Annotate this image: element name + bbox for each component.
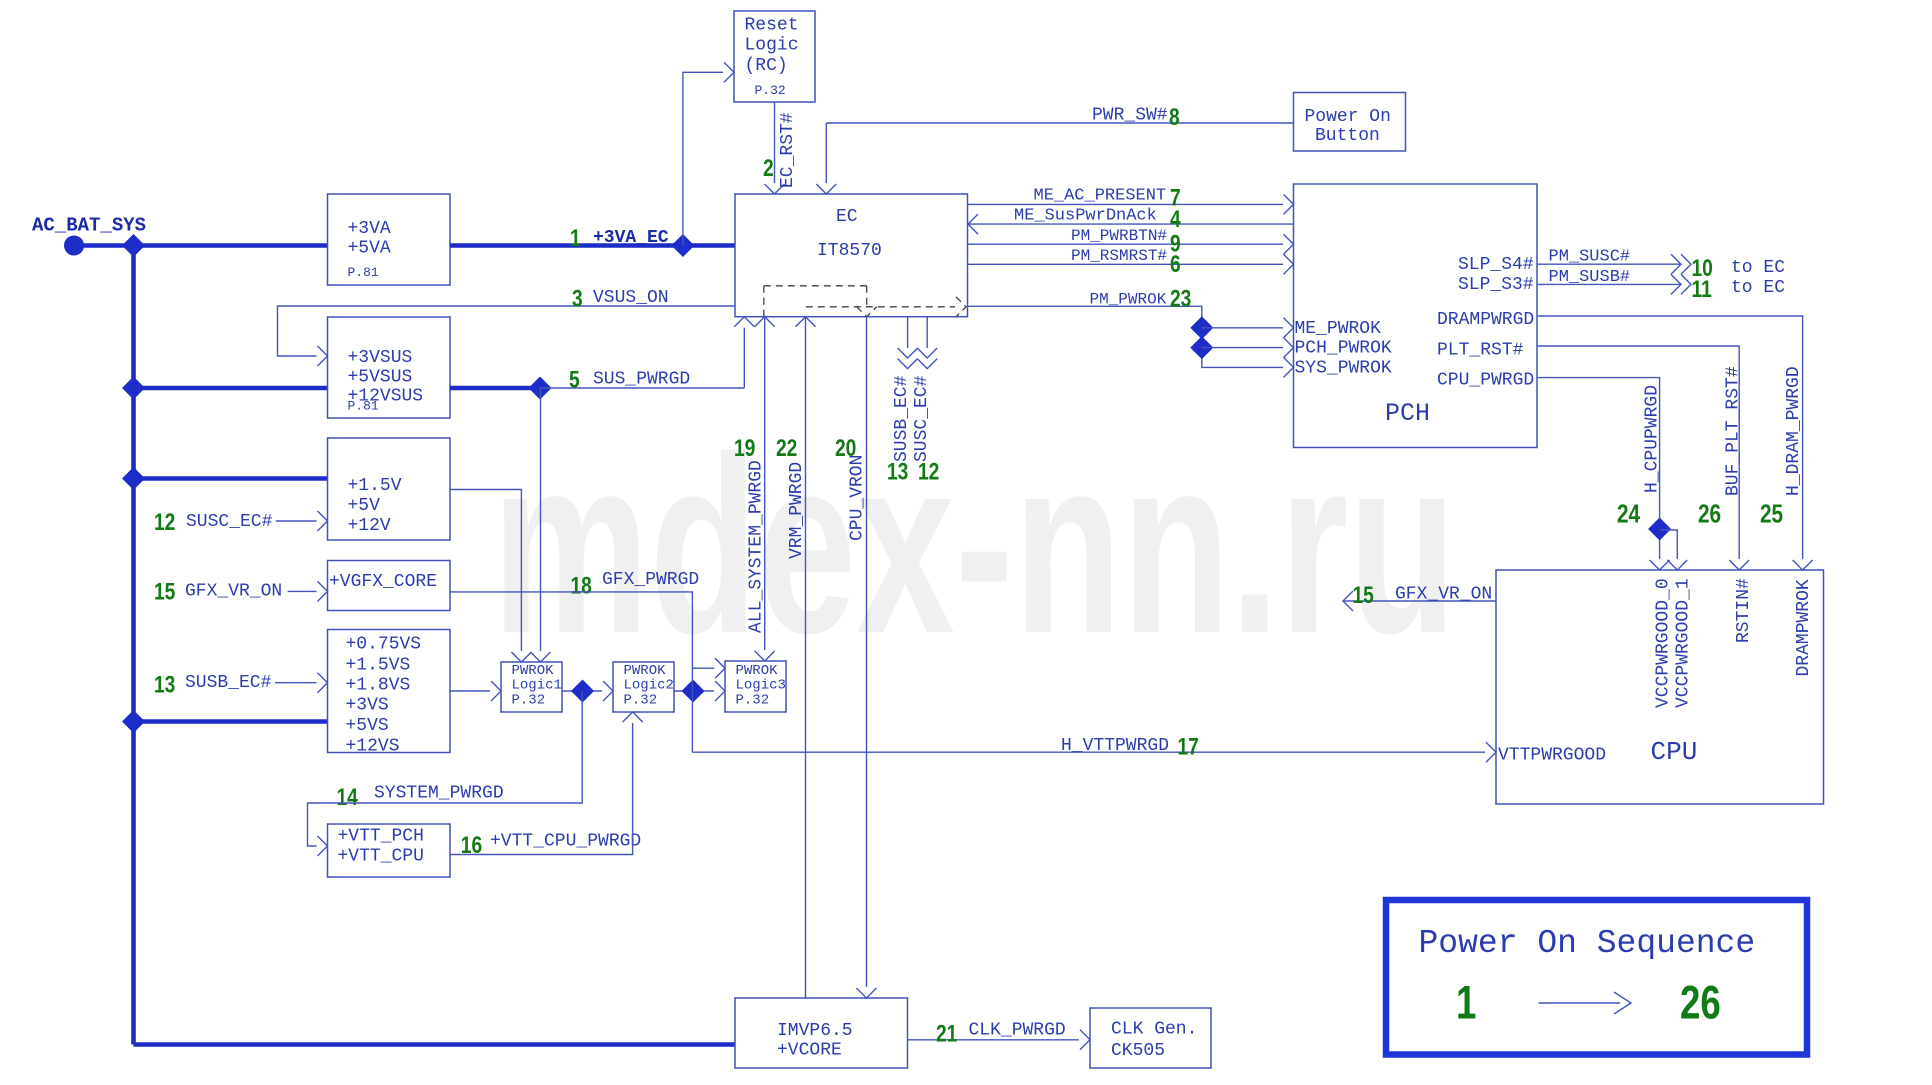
EC internal dashed logic <box>764 285 867 287</box>
arrow ALL_SYSTEM_PWRGD into Logic3 top <box>755 651 775 661</box>
junction diamond PM_PWROK to PCH_PWROK <box>1190 336 1213 359</box>
wire SUSB_EC# stub <box>275 682 317 684</box>
svg-text:PM_SUSB#: PM_SUSB# <box>1549 268 1631 287</box>
arrow SYS_PWROK into PCH <box>1284 357 1294 377</box>
svg-text:26: 26 <box>1698 499 1721 528</box>
svg-text:26: 26 <box>1680 976 1721 1028</box>
wire PLT_RST# from PCH right, down to CPU RSTIN# <box>1537 346 1739 559</box>
svg-text:12: 12 <box>918 457 939 485</box>
svg-text:SYSTEM_PWRGD: SYSTEM_PWRGD <box>374 784 504 804</box>
junction diamond bus at +3VSUS branch <box>122 377 145 400</box>
svg-text:Logic1: Logic1 <box>512 678 562 694</box>
wire EC_RST# from Reset Logic to EC top <box>774 102 776 183</box>
wire Logic2 to Logic3 <box>674 690 714 692</box>
svg-text:P.32: P.32 <box>755 83 786 98</box>
wire ME_AC_PRESENT EC to PCH <box>968 203 1284 205</box>
svg-text:+5V: +5V <box>348 496 381 516</box>
arrow H_VTTPWRGD into CPU left <box>1486 742 1496 762</box>
svg-text:CPU_VRON: CPU_VRON <box>848 455 868 541</box>
wire PM_RSMRST# EC to PCH <box>968 263 1284 265</box>
junction diamond H_CPUPWRGD <box>1648 518 1671 541</box>
arrow GFX_VR_ON pointing left <box>1343 591 1353 611</box>
arrow SUS_PWRGD into EC bottom <box>734 317 754 327</box>
block +0.75VS..+12VS <box>328 630 451 753</box>
svg-text:PM_SUSC#: PM_SUSC# <box>1549 248 1631 267</box>
wire SUSC_EC# stub into +1.5V box <box>276 520 317 522</box>
arrow ALL_SYSTEM_PWRGD into EC bottom <box>755 317 775 327</box>
svg-text:RSTIN#: RSTIN# <box>1734 578 1754 643</box>
arrow SUSC_EC# into box <box>318 511 328 531</box>
arrow into Logic1 left <box>491 681 501 701</box>
svg-text:PM_PWRBTN#: PM_PWRBTN# <box>1071 227 1167 245</box>
wire H_VTTPWRGD to CPU <box>692 751 1485 753</box>
svg-text:12: 12 <box>154 508 175 536</box>
svg-text:+3VS: +3VS <box>346 696 389 716</box>
wire ME_SusPwrDnAck PCH to EC <box>968 223 1294 225</box>
wire SUSC_EC# from EC bottom down <box>926 317 928 348</box>
double chevron arrow SUSB_EC# <box>898 348 918 369</box>
wire PM_PWROK EC to PCH with branches <box>968 306 1284 367</box>
arrow PWR_SW# into EC top <box>816 184 836 194</box>
svg-text:PCH_PWROK: PCH_PWROK <box>1295 339 1392 359</box>
arrow VSUS_ON into +3VSUS box <box>318 346 328 366</box>
svg-text:PCH: PCH <box>1385 399 1430 428</box>
block PWROK Logic2 P.32 <box>613 662 674 712</box>
svg-text:Power On: Power On <box>1305 107 1391 127</box>
svg-text:14: 14 <box>337 783 358 811</box>
junction diamond bus at +1.5V branch <box>122 467 145 490</box>
svg-text:EC_RST#: EC_RST# <box>778 112 798 188</box>
arrow PM_RSMRST# into PCH <box>1284 254 1294 274</box>
wire SUS_PWRGD thin to EC bottom <box>540 328 744 388</box>
svg-text:VRM_PWRGD: VRM_PWRGD <box>787 462 807 559</box>
svg-text:PM_RSMRST#: PM_RSMRST# <box>1071 247 1167 265</box>
svg-text:VCCPWRGOOD_0: VCCPWRGOOD_0 <box>1654 578 1674 708</box>
svg-text:BUF_PLT_RST#: BUF_PLT_RST# <box>1724 366 1744 496</box>
wire SUS_PWRGD thick segment from +3VSUS box <box>450 386 540 391</box>
svg-text:Power On Sequence: Power On Sequence <box>1419 925 1756 962</box>
svg-text:+VTT_CPU_PWRGD: +VTT_CPU_PWRGD <box>490 832 641 852</box>
arrow CPU_VRON into IMVP top <box>857 988 877 998</box>
svg-text:15: 15 <box>154 577 175 605</box>
wire CLK_PWRGD from IMVP to CLK Gen <box>908 1039 1080 1041</box>
svg-text:+3VA_EC: +3VA_EC <box>593 228 669 248</box>
wire GFX_VR_ON from CPU left <box>1343 600 1496 602</box>
wire bus branch to +0.75VS box <box>134 719 328 724</box>
arrow up into Logic2 bottom <box>623 712 643 722</box>
svg-text:PWR_SW#: PWR_SW# <box>1092 106 1168 126</box>
block +3VA/+5VA regulator P.81 <box>328 194 451 285</box>
svg-text:CLK Gen.: CLK Gen. <box>1111 1020 1197 1040</box>
svg-text:19: 19 <box>734 434 755 462</box>
block PCH <box>1294 184 1538 448</box>
svg-text:+VGFX_CORE: +VGFX_CORE <box>329 572 437 592</box>
wire branch to ME_PWROK <box>1202 327 1283 329</box>
arrow ME_SusPwrDnAck into EC right <box>968 214 978 234</box>
junction diamond bus at +0.75VS branch <box>122 710 145 733</box>
arrow ME_PWROK into PCH <box>1284 318 1294 338</box>
svg-text:1: 1 <box>1456 976 1476 1028</box>
wire PWR_SW# vertical into EC top <box>825 123 827 183</box>
block Power On Sequence legend <box>1386 900 1807 1055</box>
arrow BUF_PLT_RST# into CPU top <box>1729 560 1749 570</box>
arrow into Logic1 top <box>531 652 551 662</box>
junction diamond on +3VA_EC <box>671 234 694 257</box>
svg-text:5: 5 <box>569 365 580 393</box>
svg-text:ME_PWROK: ME_PWROK <box>1295 319 1382 339</box>
block PWROK Logic3 P.32 <box>725 661 786 712</box>
svg-text:6: 6 <box>1170 250 1181 278</box>
svg-text:DRAMPWRGD: DRAMPWRGD <box>1437 310 1534 330</box>
wire from SUS_PWRGD junction down to PWROK Logic1 top <box>540 388 542 651</box>
block PWROK Logic1 P.32 <box>501 662 562 712</box>
wire branch to PCH_PWROK <box>1202 347 1283 349</box>
svg-text:H_DRAM_PWRGD: H_DRAM_PWRGD <box>1784 366 1804 496</box>
wire VSUS_ON from EC left to +3VSUS box <box>278 306 736 356</box>
block IMVP6.5 +VCORE <box>735 998 908 1068</box>
svg-text:EC: EC <box>836 207 858 227</box>
svg-text:ME_AC_PRESENT: ME_AC_PRESENT <box>1034 187 1167 206</box>
svg-text:+3VSUS: +3VSUS <box>348 348 413 368</box>
wire CPU_PWRGD from PCH right, down to CPU VCCPWRGOOD <box>1537 378 1660 559</box>
junction diamond bus at +3VA branch <box>122 234 145 257</box>
svg-text:SUSB_EC#: SUSB_EC# <box>185 673 272 693</box>
svg-text:Reset: Reset <box>745 16 799 36</box>
svg-text:+5VS: +5VS <box>346 716 389 736</box>
junction diamond after Logic1 <box>571 680 594 703</box>
svg-text:+3VA: +3VA <box>348 219 391 239</box>
svg-text:CPU_PWRGD: CPU_PWRGD <box>1437 371 1534 391</box>
block CPU <box>1496 570 1824 804</box>
svg-text:SUSC_EC#: SUSC_EC# <box>186 512 273 532</box>
arrow into CPU VCCPWRGOOD_0 <box>1650 560 1670 570</box>
arrow into Reset Logic left <box>724 62 734 82</box>
svg-text:ALL_SYSTEM_PWRGD: ALL_SYSTEM_PWRGD <box>747 460 767 633</box>
double chevron arrow PM_SUSC# <box>1671 254 1691 274</box>
wire AC_BAT_SYS main bus horizontal to +3VA box <box>74 243 328 248</box>
wire Logic1 to Logic2 <box>562 690 602 692</box>
svg-text:Logic: Logic <box>745 36 799 56</box>
svg-text:23: 23 <box>1170 284 1191 312</box>
svg-text:+12VS: +12VS <box>346 737 400 757</box>
svg-text:25: 25 <box>1760 499 1783 528</box>
svg-text:IMVP6.5: IMVP6.5 <box>777 1021 853 1041</box>
svg-text:GFX_PWRGD: GFX_PWRGD <box>602 570 699 590</box>
block EC IT8570 <box>735 194 968 317</box>
wire VRM_PWRGD from IMVP top to EC bottom <box>805 318 807 998</box>
arrow SYSTEM_PWRGD into +VTT_PCH <box>318 836 328 856</box>
double chevron arrow PM_SUSB# <box>1671 274 1691 294</box>
arrow ME_AC_PRESENT into PCH <box>1284 194 1294 214</box>
svg-text:P.32: P.32 <box>512 693 546 709</box>
svg-text:1: 1 <box>570 224 581 252</box>
wire branch to VCCPWRGOOD_1 <box>1660 530 1678 559</box>
svg-text:24: 24 <box>1617 499 1640 528</box>
arrow sequence <box>1539 992 1632 1014</box>
svg-text:+VCORE: +VCORE <box>777 1041 842 1061</box>
arrow H_DRAM_PWRGD into CPU top <box>1793 560 1813 570</box>
svg-text:SUSC_EC#: SUSC_EC# <box>912 375 932 462</box>
svg-text:4: 4 <box>1170 205 1181 233</box>
svg-text:P.32: P.32 <box>624 693 658 709</box>
wire +3VA_EC from +3VA box to EC <box>450 243 735 248</box>
wire GFX_PWRGD from +VGFX_CORE box right, down past logic chain <box>450 592 692 752</box>
wire SYSTEM_PWRGD from Logic1 junction down to +VTT_PCH <box>308 691 583 846</box>
svg-text:H_CPUPWRGD: H_CPUPWRGD <box>1643 385 1663 493</box>
wire PM_SUSB# from SLP_S3# <box>1537 283 1680 285</box>
svg-text:P.81: P.81 <box>348 265 379 280</box>
svg-text:SYS_PWROK: SYS_PWROK <box>1295 359 1392 379</box>
wire ALL_SYSTEM_PWRGD EC bottom to Logic3 top <box>764 318 766 650</box>
arrow VRM_PWRGD into EC bottom <box>796 317 816 327</box>
svg-text:13: 13 <box>887 457 908 485</box>
wire +VTT_CPU_PWRGD to Logic2 bottom <box>450 723 633 855</box>
svg-text:to EC: to EC <box>1731 278 1785 298</box>
svg-text:+VTT_PCH: +VTT_PCH <box>338 827 424 847</box>
arrow into CPU VCCPWRGOOD_1 <box>1667 560 1687 570</box>
svg-text:+1.8VS: +1.8VS <box>346 676 411 696</box>
wire bus branch to +3VSUS box <box>134 386 328 391</box>
svg-text:Logic2: Logic2 <box>624 678 674 694</box>
wire PM_PWRBTN# EC to PCH <box>968 243 1284 245</box>
svg-text:11: 11 <box>1692 275 1712 303</box>
svg-text:VSUS_ON: VSUS_ON <box>593 288 669 308</box>
wire +0.75VS output to Logic1 <box>450 690 490 692</box>
block +1.5V/+5V/+12V <box>328 438 451 540</box>
svg-text:+1.5VS: +1.5VS <box>346 656 411 676</box>
svg-text:20: 20 <box>835 434 856 462</box>
svg-text:IT8570: IT8570 <box>817 241 882 261</box>
svg-text:21: 21 <box>936 1019 957 1047</box>
svg-text:to EC: to EC <box>1731 258 1785 278</box>
svg-text:SUS_PWRGD: SUS_PWRGD <box>593 370 690 390</box>
svg-text:H_VTTPWRGD: H_VTTPWRGD <box>1061 736 1169 756</box>
block +VTT_PCH/+VTT_CPU <box>328 824 451 877</box>
block +VGFX_CORE <box>328 561 451 611</box>
svg-text:8: 8 <box>1169 103 1180 131</box>
svg-text:(RC): (RC) <box>745 56 788 76</box>
wire bus bottom run to IMVP6.5 <box>134 1042 736 1047</box>
svg-text:PLT_RST#: PLT_RST# <box>1437 341 1524 361</box>
svg-text:P.32: P.32 <box>736 693 770 709</box>
junction diamond after Logic2 <box>682 680 705 703</box>
block CLK Gen. CK505 <box>1090 1008 1211 1068</box>
block +3VSUS/+5VSUS/+12VSUS P.81 <box>328 317 451 418</box>
wire PM_SUSC# from SLP_S4# <box>1537 263 1680 265</box>
svg-text:+1.5V: +1.5V <box>348 476 402 496</box>
arrow into Logic1 top second <box>511 652 531 662</box>
block Reset Logic (RC) P.32 <box>734 11 815 102</box>
wire AC_BAT_SYS vertical bus <box>131 246 136 1045</box>
svg-text:SLP_S4#: SLP_S4# <box>1458 255 1534 275</box>
svg-text:Button: Button <box>1315 126 1380 146</box>
arrow into Logic3 left lower <box>715 681 725 701</box>
svg-text:CK505: CK505 <box>1111 1041 1165 1061</box>
svg-text:SLP_S3#: SLP_S3# <box>1458 275 1534 295</box>
junction diamond on SUS_PWRGD <box>529 377 552 400</box>
arrow SUSB_EC# into +0.75VS box <box>318 673 328 693</box>
svg-text:+0.75VS: +0.75VS <box>346 635 422 655</box>
svg-text:2: 2 <box>763 154 774 182</box>
arrow EC_RST# into EC top <box>765 184 785 194</box>
arrow CLK_PWRGD into CLK Gen <box>1080 1030 1090 1050</box>
double chevron arrow SUSC_EC# <box>917 348 937 369</box>
svg-text:SUSB_EC#: SUSB_EC# <box>892 375 912 462</box>
arrow PM_PWRBTN# into PCH <box>1284 234 1294 254</box>
svg-text:+VTT_CPU: +VTT_CPU <box>338 847 424 867</box>
svg-text:AC_BAT_SYS: AC_BAT_SYS <box>32 215 146 237</box>
junction diamond PM_PWROK to ME_PWROK <box>1190 316 1213 339</box>
svg-text:GFX_VR_ON: GFX_VR_ON <box>185 582 282 602</box>
svg-text:+5VSUS: +5VSUS <box>348 368 413 388</box>
arrow into Logic3 left upper <box>715 658 725 678</box>
wire CPU_VRON from EC bottom to IMVP top <box>866 317 868 987</box>
svg-text:15: 15 <box>1353 581 1374 609</box>
svg-text:CLK_PWRGD: CLK_PWRGD <box>969 1021 1066 1041</box>
svg-text:DRAMPWROK: DRAMPWROK <box>1794 579 1814 676</box>
arrow GFX_VR_ON into +VGFX_CORE <box>318 581 328 601</box>
svg-text:VCCPWRGOOD_1: VCCPWRGOOD_1 <box>1674 578 1694 708</box>
arrow into Logic2 left <box>603 681 613 701</box>
wire stub into Logic3 upper left <box>692 667 714 669</box>
svg-text:ME_SusPwrDnAck: ME_SusPwrDnAck <box>1014 207 1157 226</box>
wire from +3VA_EC junction up to Reset Logic <box>683 72 723 245</box>
wire DRAMPWRGD from PCH right, down to CPU <box>1537 316 1803 559</box>
wire SUSB_EC# from EC bottom down <box>907 317 909 348</box>
svg-text:VTTPWRGOOD: VTTPWRGOOD <box>1498 746 1606 766</box>
svg-text:PM_PWROK: PM_PWROK <box>1090 291 1167 309</box>
wire PWR_SW# horizontal to Power On Button <box>826 122 1293 124</box>
svg-text:+5VA: +5VA <box>348 239 391 259</box>
wire GFX_VR_ON stub <box>288 590 317 592</box>
svg-text:Logic3: Logic3 <box>736 678 786 694</box>
svg-text:CPU: CPU <box>1651 737 1698 767</box>
arrow PCH_PWROK into PCH <box>1284 338 1294 358</box>
svg-text:13: 13 <box>154 670 175 698</box>
svg-text:22: 22 <box>776 434 797 462</box>
svg-text:+12V: +12V <box>348 516 391 536</box>
block Power On Button <box>1294 93 1406 152</box>
svg-text:3: 3 <box>572 284 583 312</box>
svg-text:17: 17 <box>1178 732 1199 760</box>
node AC_BAT_SYS dot <box>64 236 84 256</box>
svg-text:GFX_VR_ON: GFX_VR_ON <box>1395 585 1492 605</box>
wire +1.5V output to Logic1 top <box>450 490 521 652</box>
wire bus branch to +1.5V box <box>134 476 328 481</box>
svg-text:P.81: P.81 <box>348 399 379 414</box>
svg-text:18: 18 <box>571 571 592 599</box>
